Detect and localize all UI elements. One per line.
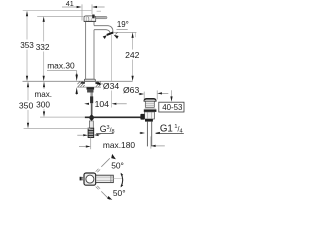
19deg reference line: [114, 31, 137, 33]
waste lever knob: [140, 114, 144, 120]
40-53 arrow: [170, 96, 172, 102]
pull rod horizontal: [96, 175, 114, 182]
dimension 242 vertical: [132, 38, 134, 77]
G3/8 nut arrows: [83, 134, 98, 136]
knob detail square: [84, 173, 96, 185]
svg-text:242: 242: [125, 50, 140, 60]
svg-text:Ø34: Ø34: [103, 81, 119, 91]
O63 tail right: [162, 92, 169, 94]
dimension 41 line: [62, 6, 105, 8]
waste bottom band: [145, 119, 153, 122]
waste lower body: [145, 112, 155, 119]
linkage rod horizontal: [85, 116, 141, 118]
svg-text:max.30: max.30: [47, 61, 75, 71]
G1 1/4 arrow tail left: [139, 132, 141, 134]
waste tailpipe: [147, 122, 151, 147]
dimension 353 vertical: [26, 16, 28, 77]
G3/8 underline: [96, 133, 113, 135]
max180 extension right: [150, 136, 152, 148]
knob detail circle: [86, 175, 94, 183]
19deg left arrow: [103, 35, 107, 39]
svg-text:19°: 19°: [117, 20, 129, 29]
dimension 41 extension lines: [82, 4, 92, 20]
dimension 353 arrows: [26, 11, 28, 82]
swivel upper leg: [101, 158, 110, 167]
deck hatch left: [77, 82, 84, 87]
dimension 350 arrows: [27, 82, 29, 129]
swivel arc: [121, 174, 123, 187]
svg-text:max.180: max.180: [103, 140, 135, 150]
faucet escutcheon base: [84, 79, 95, 81]
G1 1/4 arrows: [140, 132, 160, 134]
19deg tick: [135, 32, 137, 37]
O34 leader: [100, 83, 103, 85]
waste clamp band: [144, 109, 157, 112]
19deg underline: [117, 29, 128, 31]
swivel lower leg: [101, 191, 109, 199]
max.30 lower arrow: [76, 87, 78, 94]
O63 extension right: [156, 90, 158, 99]
faucet body column: [86, 22, 94, 79]
350 bottom line: [24, 128, 91, 130]
deck hatch dark left: [81, 82, 85, 84]
max.30 leader shelf: [47, 71, 77, 75]
19deg right leg: [115, 32, 117, 34]
arc end ticks: [121, 173, 124, 188]
knob left stub: [81, 177, 84, 180]
pop-up waste flange: [144, 98, 156, 101]
svg-text:300: 300: [36, 99, 50, 109]
pull rod and hoses below nut: [90, 93, 93, 104]
extension line below nut: [90, 138, 92, 150]
waste upper body: [145, 101, 154, 107]
dimension 332 arrows: [43, 16, 45, 81]
svg-text:Ø63: Ø63: [123, 85, 139, 95]
max180 left tail: [79, 146, 86, 148]
extension dash top right: [97, 10, 101, 12]
waste basin lines: [145, 107, 156, 109]
mounting nut below deck: [87, 87, 95, 92]
40-53 leader line: [171, 90, 173, 97]
svg-text:353: 353: [20, 41, 34, 50]
G1 1/4 underline: [156, 133, 184, 135]
max180 right arrow: [151, 145, 156, 147]
dimension max300 arrows: [43, 82, 45, 118]
G3/8 nut block: [88, 128, 94, 137]
O63 arrow right: [157, 92, 162, 94]
rod centerline: [113, 178, 123, 180]
water stream line: [111, 35, 113, 81]
extension line 353 top: [23, 10, 92, 12]
deck hatch dark right: [95, 82, 99, 84]
104 arrow tail: [116, 103, 127, 105]
19deg right arrow: [114, 35, 119, 39]
stream extension to 104 dim: [111, 91, 113, 108]
svg-text:50°: 50°: [111, 161, 124, 171]
dimension 350 vertical: [27, 87, 29, 123]
spout tube: [94, 26, 113, 34]
G3/8 arrow tails: [77, 134, 83, 136]
dimension 242 arrows: [132, 32, 134, 81]
rod segment to junction: [91, 103, 93, 115]
linkage junction: [90, 114, 94, 120]
swivel lower arrow: [107, 196, 112, 200]
max.30 upper arrow: [76, 74, 78, 82]
dimension 104: [84, 103, 116, 105]
dimension 41 arrows: [77, 6, 97, 8]
svg-text:332: 332: [36, 42, 50, 52]
max300 bottom line: [40, 116, 85, 118]
max180 right tail: [155, 145, 165, 147]
dimension 332 vertical: [43, 22, 45, 77]
O63 extension left: [143, 92, 145, 100]
40-53 box: [159, 102, 184, 112]
extension line 332 top: [37, 15, 83, 17]
knob left tip: [80, 177, 82, 181]
faucet lever joint nub: [92, 15, 94, 19]
svg-text:41: 41: [66, 0, 74, 8]
deck hatch right: [96, 82, 101, 87]
O63 leader left: [139, 93, 140, 95]
spout outlet aerator: [107, 33, 114, 35]
svg-text:350: 350: [19, 101, 34, 111]
dimension max300 vertical: [43, 87, 45, 112]
hose tube: [89, 121, 93, 128]
faucet cartridge cap: [84, 16, 96, 22]
svg-text:max.: max.: [35, 90, 53, 99]
svg-text:40-53: 40-53: [162, 103, 183, 112]
O63 arrow left: [139, 93, 144, 95]
max180 left arrow: [86, 145, 91, 147]
faucet lever stick: [95, 16, 108, 19]
svg-text:50°: 50°: [113, 188, 126, 198]
svg-text:104: 104: [95, 99, 110, 109]
deck top line: [23, 80, 133, 82]
deck bottom line: [77, 86, 101, 88]
O34 arrow: [96, 83, 101, 85]
swivel upper dashes: [96, 169, 100, 173]
swivel upper arrow: [111, 154, 116, 159]
swivel lower dashes: [96, 186, 100, 190]
